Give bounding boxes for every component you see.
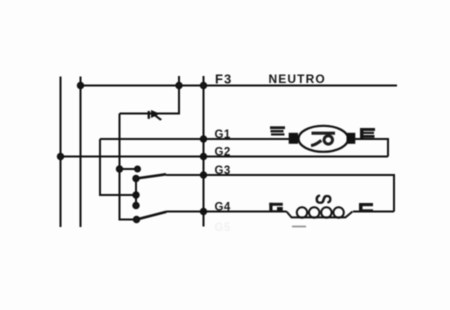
wire: F3 NEUTRO horizontal bbox=[81, 85, 398, 87]
svg-text:F3: F3 bbox=[215, 72, 232, 87]
wire: vertical bus x203.5 bbox=[203, 76, 205, 227]
node: bracket x switch column bbox=[133, 192, 138, 197]
wire: lamp right to loop edge down to G2 bbox=[355, 139, 388, 157]
wire G4 left segment bbox=[167, 211, 287, 213]
lamp letter R (rotated 90cw, drawn) bbox=[311, 133, 335, 145]
wire G4 right segment bbox=[353, 211, 394, 213]
svg-text:G3: G3 bbox=[215, 165, 231, 177]
switch S2 blade bbox=[137, 212, 167, 220]
wire: left bus vertical V1 bbox=[60, 77, 62, 228]
node: S1 pivot bbox=[133, 176, 138, 181]
node: junction V2 x F3 bbox=[78, 83, 83, 88]
wire G1 to lamp bbox=[100, 138, 292, 140]
wire: switch S1 fixed contact branch bbox=[120, 168, 138, 170]
label: terminal tag left of coil bbox=[269, 203, 283, 213]
svg-text:G2: G2 bbox=[215, 147, 231, 159]
node: x203.5 on G3 bbox=[201, 172, 206, 177]
svg-text:G4: G4 bbox=[215, 202, 231, 214]
node: x203.5 on F3 bbox=[201, 83, 206, 88]
node: branch junction on feed column bbox=[117, 166, 122, 171]
switch S1 blade bbox=[136, 174, 166, 178]
node: x203.5 on G4 bbox=[201, 209, 206, 214]
node: x203.5 on G1 bbox=[201, 136, 206, 141]
node: x203.5 on G2 bbox=[201, 154, 206, 159]
node: S2 pivot bbox=[134, 217, 139, 222]
svg-text:NEUTRO: NEUTRO bbox=[269, 72, 326, 86]
svg-text:G1: G1 bbox=[215, 129, 231, 141]
wire: stub x179 down to diode branch bbox=[120, 76, 180, 114]
node: junction x179 on F3 bbox=[176, 83, 181, 88]
label: terminal tag above-left of lamp bbox=[270, 126, 285, 135]
node: G2 on V1 bbox=[58, 154, 63, 159]
label: terminal tag above-right of lamp bbox=[360, 128, 375, 138]
wire: vertical from diode branch down to switch S2 feed bbox=[120, 114, 136, 220]
lamp left terminal block bbox=[289, 133, 298, 144]
wire: switch column between pivots bbox=[135, 179, 137, 206]
inductor L1 coil bbox=[287, 207, 353, 217]
svg-text:S: S bbox=[310, 194, 335, 205]
wire: G1 left bracket down to switch column bbox=[100, 139, 136, 195]
diode D1 on branch bbox=[148, 110, 162, 121]
ghost: faint dash below coil bbox=[292, 226, 306, 228]
node: column bottom contact bbox=[133, 203, 138, 208]
lamp right terminal block bbox=[347, 133, 356, 144]
label: terminal tag right of coil bbox=[359, 203, 373, 213]
wire: left bus vertical V2 bbox=[80, 77, 82, 228]
lamp R ellipse bbox=[299, 126, 349, 152]
node: S1 fixed contact bbox=[135, 167, 140, 172]
wire G3 bbox=[166, 175, 394, 212]
wire G2 bbox=[61, 156, 389, 158]
svg-text:G5: G5 bbox=[215, 222, 231, 234]
